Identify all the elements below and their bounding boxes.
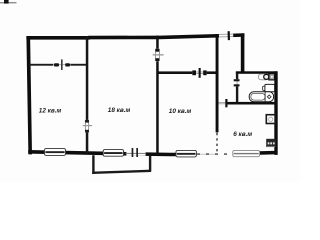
wall segment: right exterior wall upper part	[241, 33, 245, 73]
wall segment: closet partition above room 12	[29, 64, 87, 66]
window W1: room 12	[45, 149, 66, 156]
door D3: closet doorway	[53, 59, 70, 70]
door D6: kitchen doorway	[219, 99, 228, 107]
wall segment: room 10 top wall / corridor wall	[157, 71, 218, 74]
wall segment: partition between room 18 and room 10	[156, 36, 159, 155]
svg-text:18 кв.м: 18 кв.м	[108, 107, 131, 114]
dashed partition line: hallway/kitchen along bottom wall	[197, 153, 236, 155]
wall segment: bottom exterior wall (sagging)	[28, 150, 277, 157]
wall segment: right exterior wall lower part	[274, 71, 277, 155]
wall segment: bathroom left wall	[236, 73, 238, 103]
wall segment: bathroom top wall	[236, 71, 278, 74]
fixture: bathtub	[249, 92, 273, 102]
fixture: kitchen sink unit	[266, 115, 275, 124]
wall segment: left exterior wall	[26, 36, 32, 154]
fixture: wash basin	[263, 84, 275, 91]
window W3: room 10	[176, 150, 196, 157]
door D2: doorway between room 12 and room 18	[83, 120, 92, 133]
fixture: kitchen stove	[266, 139, 276, 147]
door D1: entrance doorway in top wall	[219, 31, 233, 40]
scan artifact: cropped drawing fragment at top-left edge	[0, 0, 17, 4]
door D5: room 10 doorway	[192, 68, 206, 78]
balcony outline	[92, 155, 151, 174]
window W4: kitchen	[233, 150, 260, 156]
door D8: balcony doorway in bottom wall	[126, 148, 146, 157]
wall segment: thick hallway partition (room 10 right wall)	[216, 34, 219, 132]
window W2: room 18	[103, 150, 123, 157]
wall segment: top exterior wall (slightly warped)	[26, 33, 244, 39]
door D7: bathroom doorway	[234, 79, 240, 86]
wall segment: kitchen top wall	[218, 102, 277, 105]
svg-text:6 кв.м: 6 кв.м	[233, 131, 252, 138]
wall segment: dashed continuation of hallway partition	[216, 133, 218, 154]
svg-text:12 кв.м: 12 кв.м	[39, 108, 62, 115]
svg-text:10 кв.м: 10 кв.м	[169, 108, 192, 115]
fixture: toilet	[258, 74, 274, 80]
wall segment: partition between room 12 and room 18	[86, 36, 89, 154]
door D4: doorway between room 18 and corridor	[153, 49, 164, 62]
